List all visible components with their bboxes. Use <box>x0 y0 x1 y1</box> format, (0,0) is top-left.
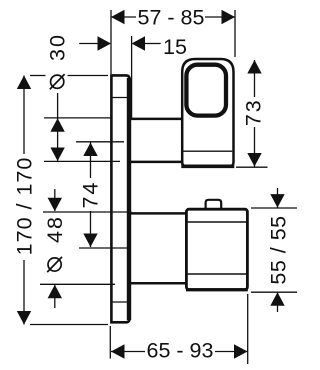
svg-text:57 - 85: 57 - 85 <box>138 6 205 30</box>
svg-text:170 / 170: 170 / 170 <box>13 157 37 256</box>
svg-text:30: 30 <box>46 33 70 61</box>
svg-text:73: 73 <box>242 98 266 126</box>
svg-text:65 - 93: 65 - 93 <box>147 339 214 363</box>
svg-text:15: 15 <box>163 35 187 59</box>
svg-text:55 / 55: 55 / 55 <box>267 215 291 284</box>
svg-text:48: 48 <box>43 215 67 243</box>
svg-text:74: 74 <box>79 181 103 209</box>
